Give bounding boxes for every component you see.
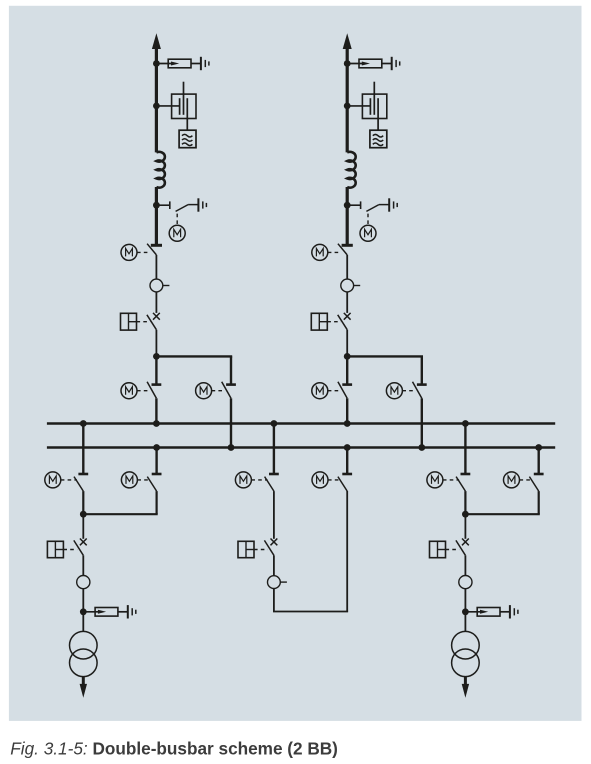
- wire: breaker to CT (transformer feeder 5): [464, 555, 466, 575]
- wire: breaker to CT (bus coupler): [273, 555, 275, 575]
- wire: selector Q32 down: [156, 491, 158, 514]
- selector Q32 (busbar selector): [155, 448, 157, 475]
- wire: join to breaker (transformer feeder 3): [82, 514, 84, 539]
- wire: selector Q31 down: [82, 491, 84, 514]
- coupler selector Q42 (busbar selector): [346, 448, 348, 475]
- node C2: earthing-switch tap: [344, 202, 351, 209]
- wire: Q1 to CT (feeder 2): [346, 255, 348, 279]
- current transformer (transformer feeder 5): [459, 576, 472, 589]
- node: feeder 1 on busbar BB2: [228, 444, 235, 451]
- selector Q51 (busbar selector): [464, 424, 466, 475]
- load arrow (transformer feeder 5): [464, 677, 467, 688]
- ground (arrester, transformer feeder 3): [127, 605, 129, 618]
- node C1: earthing-switch tap: [153, 202, 160, 209]
- ground (earthing switch, feeder 2): [388, 198, 390, 211]
- reactor / inductor (feeder 1): [156, 152, 164, 188]
- node B2: voltage-transformer tap: [344, 103, 351, 110]
- motor drive M (selector Q32): [137, 479, 150, 481]
- wire: selector Q51 down: [464, 491, 466, 514]
- wire: selector tie (transformer feeder 3): [83, 513, 157, 515]
- node: feeder 1 on busbar BB1: [153, 420, 160, 427]
- motor drive M (selector Q2, feeder 1): [137, 390, 150, 392]
- motor drive M (coupler selector Q42): [328, 479, 341, 481]
- motor drive M (selector Q3, feeder 1): [212, 390, 225, 392]
- motor drive M (selector Q52): [520, 479, 533, 481]
- node: coupler selector Q42 on busbar BB2: [344, 444, 351, 451]
- node: selector Q32 on busbar BB2: [153, 444, 160, 451]
- line arrow (incoming feeder 2): [343, 33, 352, 49]
- wire: selector Q52 down: [538, 491, 540, 514]
- coupler selector Q41 (busbar selector): [273, 424, 275, 475]
- node F3: arrester tap: [80, 608, 87, 615]
- transformer feeder 5 (right): [0, 0, 1, 1]
- wire: trunk below reactor (feeder 1): [155, 187, 158, 245]
- wire: CT to arrester tap (transformer feeder 3): [82, 589, 84, 612]
- node: coupler selector Q41 on busbar BB1: [271, 420, 278, 427]
- surge arrester (transformer feeder 3): [83, 611, 102, 613]
- wire: breaker to CT (transformer feeder 3): [82, 555, 84, 575]
- wire: CT to breaker (feeder 2): [346, 292, 348, 313]
- transformer feeder 3 (left): [0, 0, 1, 1]
- wire: breaker to split node (feeder 1): [155, 330, 157, 357]
- top feeder 1 (incoming line): [0, 0, 1, 1]
- circuit breaker (feeder 2): [344, 313, 351, 320]
- ground (arrester, feeder 1): [200, 57, 202, 70]
- node: selector Q31 on busbar BB1: [80, 420, 87, 427]
- surge arrester (feeder 1): [156, 63, 175, 65]
- wire: coupler selector Q41 down: [273, 491, 275, 539]
- top feeder 2 (incoming line): [0, 0, 1, 1]
- ground (arrester, feeder 2): [391, 57, 393, 70]
- line arrow (incoming feeder 1): [152, 33, 161, 49]
- capacitor voltage transformer (feeder 1): [156, 105, 179, 107]
- motor drive M (selector Q31): [61, 479, 77, 481]
- earthing switch (feeder 1): [156, 204, 169, 206]
- busbar selector Q2 to BB1 (feeder 2): [346, 356, 348, 384]
- motor drive M (selector Q3, feeder 2): [402, 390, 415, 392]
- busbar selector Q3 to BB2 (feeder 1): [226, 383, 236, 386]
- busbar selector Q2 to BB1 (feeder 1): [155, 356, 157, 384]
- node: selector Q51 on busbar BB1: [462, 420, 469, 427]
- node: selector Q52 on busbar BB2: [535, 444, 542, 451]
- wire: trunk below reactor (feeder 2): [346, 187, 349, 245]
- wire: CT to breaker (feeder 1): [155, 292, 157, 313]
- disconnector Q1 (feeder 1): [151, 244, 162, 247]
- wire: to transformer (feeder 3): [82, 612, 84, 632]
- node A2: surge-arrester tap: [344, 60, 351, 67]
- motor drive M (disconnector Q1, feeder 2): [328, 251, 341, 253]
- bus coupler: [0, 0, 1, 1]
- wire: coupler loop: [273, 589, 275, 612]
- wire: breaker to split node (feeder 2): [346, 330, 348, 357]
- selector Q52 (busbar selector): [538, 448, 540, 475]
- reactor / inductor (feeder 2): [347, 152, 355, 188]
- node D2: busbar-selector split: [344, 353, 351, 360]
- node F5: arrester tap: [462, 608, 469, 615]
- wire: selector branch (feeder 1): [156, 355, 232, 357]
- wire: selector tie (transformer feeder 5): [465, 513, 539, 515]
- wire: join to breaker (transformer feeder 5): [464, 514, 466, 539]
- surge arrester (feeder 2): [347, 63, 366, 65]
- busbar selector Q3 to BB2 (feeder 2): [417, 383, 427, 386]
- ground (earthing switch, feeder 1): [197, 198, 199, 211]
- circuit breaker (feeder 1): [153, 313, 160, 320]
- node E3: selector join: [80, 511, 87, 518]
- earthing switch (feeder 2): [347, 204, 360, 206]
- surge arrester (transformer feeder 5): [465, 611, 484, 613]
- busbar BB1: [47, 422, 555, 425]
- motor drive M (disconnector Q1, feeder 1): [137, 251, 150, 253]
- transformer T3: [70, 631, 98, 659]
- current transformer (feeder 2): [341, 279, 354, 292]
- ground (arrester, transformer feeder 5): [509, 605, 511, 618]
- wire: incoming line feeder 2 trunk: [346, 43, 349, 152]
- transformer T5: [452, 631, 480, 659]
- circuit breaker (transformer feeder 3): [80, 539, 87, 546]
- node D1: busbar-selector split: [153, 353, 160, 360]
- circuit breaker (transformer feeder 5): [462, 539, 469, 546]
- capacitor voltage transformer (feeder 2): [347, 105, 370, 107]
- motor drive M (coupler selector Q41): [251, 479, 267, 481]
- current transformer (transformer feeder 3): [77, 576, 90, 589]
- power-line-carrier filter (feeder 1): [179, 130, 196, 148]
- disconnector Q1 (feeder 2): [342, 244, 353, 247]
- motor drive M (earthing switch, feeder 2): [367, 214, 369, 226]
- circuit breaker (bus coupler): [271, 539, 278, 546]
- motor drive M (earthing switch, feeder 1): [176, 214, 178, 226]
- busbar BB2: [47, 446, 555, 449]
- node: feeder 2 on busbar BB2: [418, 444, 425, 451]
- motor drive M (selector Q2, feeder 2): [328, 390, 341, 392]
- node: feeder 2 on busbar BB1: [344, 420, 351, 427]
- wire: incoming line feeder 1 trunk: [155, 43, 158, 152]
- node B1: voltage-transformer tap: [153, 103, 160, 110]
- wire: to transformer (feeder 5): [464, 612, 466, 632]
- svg-text:Fig. 3.1-5: Double-busbar sche: Fig. 3.1-5: Double-busbar scheme (2 BB): [10, 738, 338, 758]
- node E5: selector join: [462, 511, 469, 518]
- load arrow (transformer feeder 3): [82, 677, 85, 688]
- motor drive M (selector Q51): [443, 479, 459, 481]
- wire: CT to arrester tap (transformer feeder 5): [464, 589, 466, 612]
- selector Q31 (busbar selector): [82, 424, 84, 475]
- wire: selector branch (feeder 2): [347, 355, 423, 357]
- current transformer (bus coupler): [268, 576, 281, 589]
- node A1: surge-arrester tap: [153, 60, 160, 67]
- wire: Q1 to CT (feeder 1): [155, 255, 157, 279]
- power-line-carrier filter (feeder 2): [370, 130, 387, 148]
- current transformer (feeder 1): [150, 279, 163, 292]
